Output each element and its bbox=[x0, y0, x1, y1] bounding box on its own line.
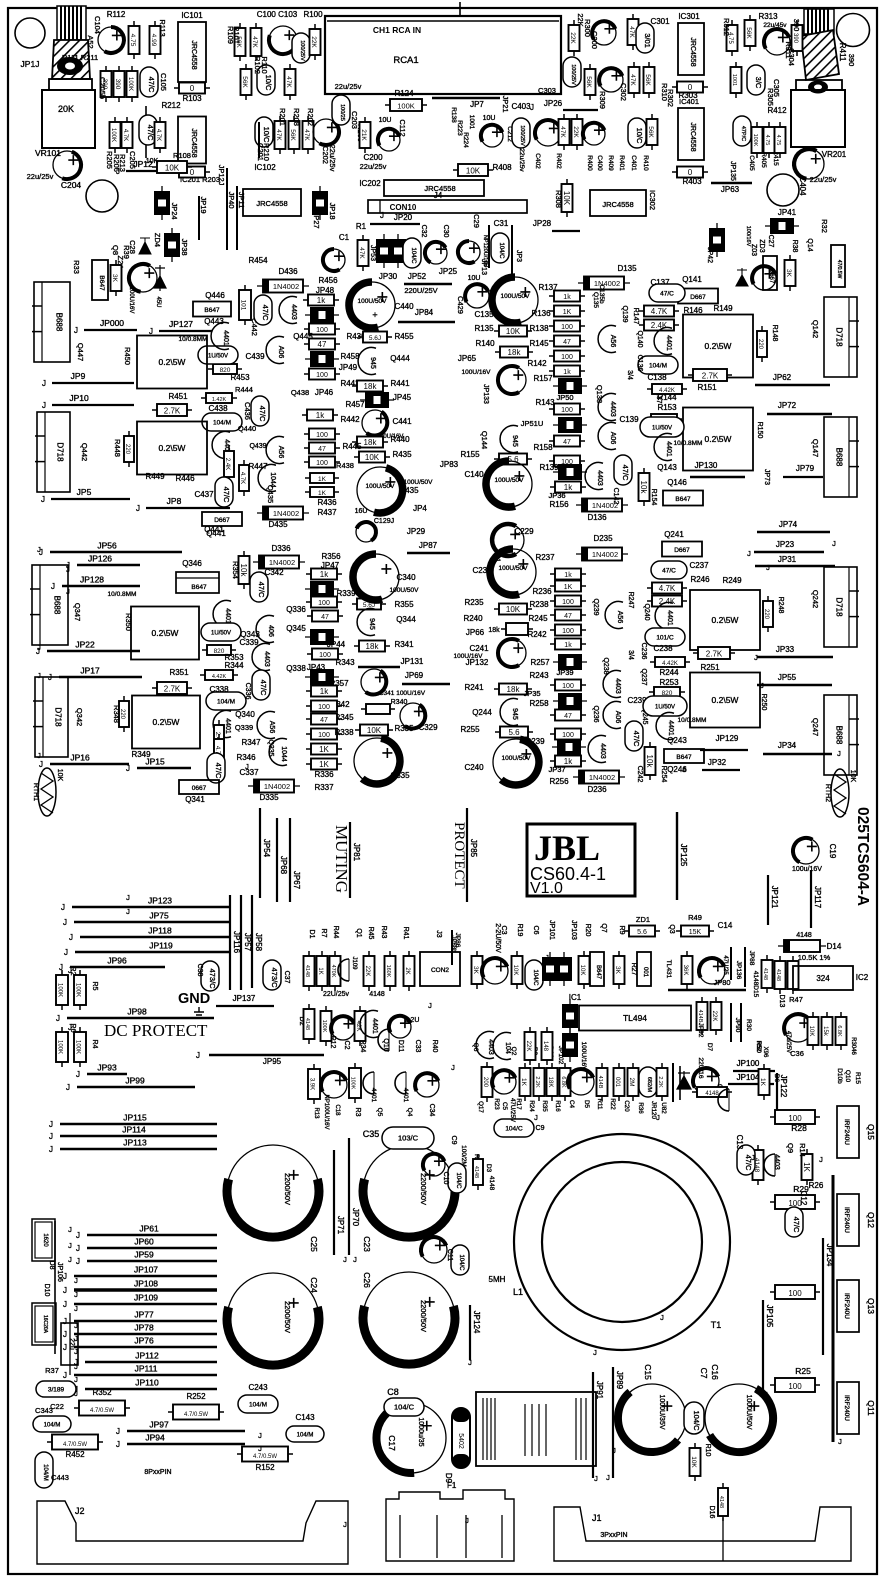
cap ecap r3 bbox=[599, 68, 623, 92]
svg-text:R36: R36 bbox=[637, 1102, 644, 1114]
diode D436 bbox=[257, 280, 309, 293]
svg-text:47K: 47K bbox=[303, 129, 310, 141]
svg-text:2.4K: 2.4K bbox=[224, 458, 230, 470]
svg-text:R451: R451 bbox=[168, 392, 188, 401]
svg-text:0.2\5W: 0.2\5W bbox=[705, 341, 732, 351]
svg-text:J: J bbox=[74, 1375, 78, 1384]
transistor B647 r3 bbox=[176, 572, 219, 593]
svg-text:R247: R247 bbox=[627, 592, 634, 609]
svg-text:JP116: JP116 bbox=[232, 931, 241, 954]
svg-text:Q442: Q442 bbox=[80, 443, 89, 461]
svg-text:4148D15: 4148D15 bbox=[752, 971, 759, 998]
wire JP125 bbox=[676, 812, 678, 900]
wire jumper JP77 bbox=[74, 1320, 217, 1322]
resistor 5.6 r4 bbox=[495, 727, 533, 738]
svg-text:1K: 1K bbox=[564, 584, 573, 591]
connector J1 bbox=[554, 1507, 851, 1561]
svg-text:Q10: Q10 bbox=[844, 1070, 851, 1083]
svg-text:D5: D5 bbox=[583, 1100, 590, 1108]
svg-text:C19: C19 bbox=[828, 844, 837, 859]
wire jumper JP61 bbox=[87, 1234, 217, 1236]
svg-text:4.99: 4.99 bbox=[150, 34, 157, 47]
svg-text:D10: D10 bbox=[43, 1284, 50, 1297]
svg-text:JP86: JP86 bbox=[454, 933, 461, 948]
wire jumper JP113 bbox=[60, 1148, 217, 1150]
svg-text:JP113: JP113 bbox=[123, 1138, 147, 1148]
cap 47/C b bbox=[215, 477, 233, 507]
cap 104/C b bbox=[525, 960, 543, 990]
svg-text:JP92: JP92 bbox=[697, 1023, 704, 1038]
svg-text:J: J bbox=[116, 1427, 120, 1436]
jumper JP53 blobs bbox=[376, 234, 392, 268]
transistor 945 r3 bbox=[357, 609, 375, 636]
resistor 220 r3 bbox=[119, 696, 129, 732]
ecap 10U bbox=[378, 129, 400, 151]
transistor Q442 D718 bbox=[37, 412, 70, 492]
svg-text:R27: R27 bbox=[630, 963, 637, 976]
svg-text:4.7K: 4.7K bbox=[155, 129, 161, 141]
svg-text:1N4002: 1N4002 bbox=[269, 558, 295, 567]
svg-text:R156: R156 bbox=[549, 500, 569, 509]
svg-text:2.7K: 2.7K bbox=[706, 649, 723, 658]
svg-text:10/0.8MM: 10/0.8MM bbox=[678, 717, 707, 724]
resistor 6.8K z bbox=[836, 1012, 847, 1050]
svg-text:Q239: Q239 bbox=[592, 598, 599, 615]
cap C37 bbox=[263, 960, 281, 990]
cap 47/C bbox=[140, 67, 158, 97]
svg-text:1620: 1620 bbox=[42, 1233, 48, 1247]
svg-text:47K: 47K bbox=[559, 126, 566, 138]
resistor 36K v bbox=[682, 951, 693, 989]
diode D9 5402 bbox=[452, 1408, 470, 1468]
svg-text:C240: C240 bbox=[464, 763, 484, 772]
svg-text:22K: 22K bbox=[711, 1011, 717, 1022]
IC IC401 bbox=[678, 108, 704, 160]
svg-text:R11: R11 bbox=[596, 1099, 603, 1110]
svg-text:100: 100 bbox=[561, 324, 573, 331]
resistor R10 10K bbox=[690, 1443, 701, 1481]
svg-text:R344: R344 bbox=[224, 661, 244, 670]
svg-text:682/M: 682/M bbox=[646, 1077, 652, 1093]
wire jumper JP119 bbox=[75, 951, 230, 953]
svg-text:100: 100 bbox=[562, 732, 574, 739]
svg-text:R440: R440 bbox=[390, 435, 410, 444]
svg-text:4.75: 4.75 bbox=[129, 34, 136, 47]
svg-text:JP112: JP112 bbox=[135, 1351, 159, 1361]
svg-text:JRC4558: JRC4558 bbox=[190, 40, 197, 69]
VR101 shaft collar (hatched) bbox=[52, 40, 90, 79]
diode 1N4002 ch1 bbox=[576, 499, 628, 512]
cap 100/25V NP r bbox=[563, 57, 581, 87]
svg-text:R41: R41 bbox=[402, 927, 409, 940]
svg-text:R44: R44 bbox=[332, 926, 339, 939]
capacitor C100 22u bbox=[269, 26, 297, 54]
svg-text:R158: R158 bbox=[533, 443, 553, 452]
svg-text:C229: C229 bbox=[514, 527, 534, 536]
svg-text:1K: 1K bbox=[520, 1078, 527, 1087]
resistor R113 4.7K bbox=[129, 21, 140, 59]
transistor 4401 r4 bbox=[655, 603, 673, 630]
svg-text:R108: R108 bbox=[173, 151, 191, 160]
svg-text:R441: R441 bbox=[390, 379, 410, 388]
svg-text:J: J bbox=[74, 326, 78, 335]
svg-text:Q12: Q12 bbox=[866, 1212, 876, 1228]
resistor 1k b bbox=[302, 410, 338, 421]
svg-text:JP41: JP41 bbox=[778, 208, 797, 217]
svg-text:IC201 R203: IC201 R203 bbox=[180, 175, 220, 184]
svg-text:R52: R52 bbox=[755, 1040, 761, 1052]
svg-text:D13: D13 bbox=[778, 995, 785, 1008]
svg-text:4148: 4148 bbox=[775, 969, 781, 981]
svg-text:47/C: 47/C bbox=[258, 406, 267, 422]
svg-text:JP109: JP109 bbox=[134, 1293, 158, 1303]
blob b2 bbox=[556, 952, 572, 986]
svg-text:10K: 10K bbox=[466, 166, 481, 175]
svg-text:1N4002: 1N4002 bbox=[589, 773, 615, 782]
capacitor C404 bbox=[794, 149, 824, 179]
wire jumper JP000 bbox=[84, 329, 137, 331]
jumper blob bbox=[305, 307, 339, 323]
svg-text:JP96: JP96 bbox=[107, 956, 127, 966]
resistor 4.7K bbox=[239, 460, 249, 496]
cap 47/C r3 bbox=[250, 572, 268, 602]
svg-text:100K: 100K bbox=[57, 983, 63, 997]
diode D14 4148 bbox=[778, 940, 826, 952]
svg-text:22u/25v: 22u/25v bbox=[810, 175, 837, 184]
resistor R152 4.7/0.5W bbox=[237, 1447, 293, 1462]
resistor 47 r3b bbox=[306, 714, 342, 725]
svg-text:820: 820 bbox=[214, 648, 225, 655]
blob r4c bbox=[552, 739, 586, 755]
resistor R408 10K bbox=[453, 164, 493, 176]
svg-text:104/C: 104/C bbox=[410, 247, 416, 264]
svg-text:R312: R312 bbox=[722, 18, 731, 36]
ecap r6 bbox=[583, 123, 605, 145]
jumper blob3 bbox=[360, 392, 394, 408]
svg-text:R410: R410 bbox=[642, 155, 649, 171]
svg-text:Q341: Q341 bbox=[185, 795, 205, 804]
svg-text:JP23: JP23 bbox=[776, 540, 795, 549]
svg-text:JP70: JP70 bbox=[351, 1208, 360, 1227]
svg-text:C342: C342 bbox=[264, 568, 284, 577]
diode D667 r4 bbox=[662, 542, 702, 557]
wire JP130 bbox=[690, 476, 745, 478]
svg-text:R3046: R3046 bbox=[850, 1037, 856, 1055]
svg-text:47/C: 47/C bbox=[632, 731, 641, 747]
svg-text:R248: R248 bbox=[777, 597, 784, 614]
svg-text:4403: 4403 bbox=[614, 678, 621, 694]
cap C30 bbox=[425, 242, 447, 264]
svg-text:C238: C238 bbox=[653, 644, 673, 653]
svg-text:D435: D435 bbox=[268, 520, 288, 529]
capacitor C13 bbox=[737, 1145, 755, 1175]
svg-text:22U/16: 22U/16 bbox=[697, 1058, 704, 1079]
svg-text:2.7K: 2.7K bbox=[702, 371, 719, 380]
svg-text:JP103: JP103 bbox=[570, 920, 577, 940]
svg-text:100: 100 bbox=[562, 683, 574, 690]
svg-text:R208: R208 bbox=[292, 108, 301, 126]
resistor R203 0 bbox=[174, 167, 210, 178]
svg-text:C8: C8 bbox=[387, 1387, 399, 1397]
svg-text:10K: 10K bbox=[849, 770, 856, 783]
svg-text:22u/25v: 22u/25v bbox=[328, 145, 337, 172]
svg-text:R253: R253 bbox=[659, 678, 679, 687]
cap 1U/50V r3 bbox=[201, 623, 241, 641]
resistor 100 r3 bbox=[306, 597, 342, 608]
svg-text:100: 100 bbox=[316, 372, 328, 379]
svg-text:R101: R101 bbox=[232, 26, 241, 44]
svg-text:R308: R308 bbox=[554, 190, 563, 208]
resistor 100b bbox=[304, 369, 340, 380]
wire JP68 bbox=[276, 818, 278, 902]
svg-text:JRC4558: JRC4558 bbox=[602, 200, 633, 209]
svg-text:47/C: 47/C bbox=[660, 291, 674, 298]
svg-text:025TCS604-A: 025TCS604-A bbox=[854, 807, 871, 906]
svg-text:Q11: Q11 bbox=[866, 1400, 876, 1416]
cap 1U/50V bbox=[198, 346, 238, 364]
svg-text:C105: C105 bbox=[159, 73, 168, 91]
mounting hole left upper bbox=[86, 180, 118, 212]
cap C32 104/C bbox=[403, 238, 421, 268]
connector CON2 bbox=[420, 952, 460, 986]
svg-text:Q444: Q444 bbox=[390, 354, 410, 363]
cap 1044 ps bbox=[378, 1029, 389, 1051]
svg-text:JP83: JP83 bbox=[440, 460, 459, 469]
transistor Q147 B688 bbox=[824, 417, 857, 497]
svg-text:4148: 4148 bbox=[304, 965, 310, 977]
heatsink rail wire bbox=[832, 1175, 835, 1442]
resistor 4.42K r4 bbox=[650, 657, 690, 667]
svg-text:JP45: JP45 bbox=[393, 393, 412, 402]
resistor 1k ch1 col bbox=[549, 291, 585, 302]
resistor R252 4.7/0.5W bbox=[168, 1405, 224, 1420]
svg-text:JP73: JP73 bbox=[763, 469, 770, 485]
svg-text:J: J bbox=[116, 1440, 120, 1449]
resistor 10k v r4 bbox=[645, 742, 656, 780]
svg-text:R255: R255 bbox=[460, 725, 480, 734]
capacitor C7 104/C bbox=[684, 1402, 704, 1434]
svg-text:C33: C33 bbox=[414, 1040, 421, 1053]
svg-text:945: 945 bbox=[511, 708, 518, 720]
resistor 18k r4b bbox=[494, 684, 532, 695]
svg-text:Q339: Q339 bbox=[235, 723, 253, 732]
ecap r5 bbox=[535, 120, 561, 146]
svg-text:1k: 1k bbox=[320, 687, 329, 696]
resistor 100 bbox=[304, 324, 340, 335]
svg-text:200: 200 bbox=[482, 1077, 488, 1088]
svg-text:10K: 10K bbox=[365, 453, 380, 462]
wire jumper JP97 bbox=[127, 1430, 245, 1432]
svg-text:2.7K: 2.7K bbox=[164, 406, 181, 415]
svg-text:JP129: JP129 bbox=[716, 734, 739, 743]
svg-text:R256: R256 bbox=[549, 777, 569, 786]
resistor 18k r3 bbox=[354, 641, 390, 652]
svg-text:R7: R7 bbox=[320, 929, 327, 938]
svg-text:3/01: 3/01 bbox=[643, 33, 652, 48]
resistor 47K r5 bbox=[559, 114, 570, 150]
resistor R26 1K bbox=[802, 1149, 813, 1185]
ecap r3 mid2 bbox=[400, 703, 426, 729]
resistor 10K r4 bbox=[494, 604, 532, 615]
svg-text:B647: B647 bbox=[675, 496, 691, 503]
svg-text:Q347: Q347 bbox=[73, 603, 82, 621]
driver block r4 lower bbox=[690, 673, 760, 728]
wire JP23 bbox=[754, 551, 824, 553]
svg-text:R30: R30 bbox=[745, 1019, 752, 1031]
resistor 47d bbox=[304, 443, 340, 454]
svg-text:JP5: JP5 bbox=[77, 487, 92, 497]
svg-text:J: J bbox=[74, 1290, 78, 1299]
wire JP122 bbox=[776, 1073, 778, 1112]
svg-text:IRF240U: IRF240U bbox=[843, 1293, 850, 1319]
wire jumper JP94 bbox=[127, 1443, 245, 1445]
diode D667 ch1 bbox=[678, 289, 718, 304]
svg-text:36K: 36K bbox=[682, 965, 688, 976]
cap C435 100U/50V bbox=[357, 467, 403, 513]
svg-text:0: 0 bbox=[190, 84, 195, 93]
cap C129 bbox=[356, 522, 376, 542]
transistor M06 bbox=[266, 337, 284, 364]
wire JP129 bbox=[700, 749, 748, 751]
svg-text:IC101: IC101 bbox=[181, 11, 203, 20]
svg-text:R450: R450 bbox=[123, 347, 132, 365]
svg-text:1k: 1k bbox=[563, 294, 571, 301]
svg-text:R26: R26 bbox=[809, 1181, 824, 1190]
svg-text:ZD3: ZD3 bbox=[758, 239, 765, 252]
resistor R28 100 bbox=[770, 1110, 820, 1124]
svg-text:22u/25v: 22u/25v bbox=[335, 82, 362, 91]
resistor 5.6 ch1 bbox=[494, 454, 532, 465]
svg-text:100U/50V: 100U/50V bbox=[366, 483, 396, 490]
svg-text:J: J bbox=[764, 1390, 768, 1399]
svg-text:Q142: Q142 bbox=[811, 320, 820, 338]
svg-text:JP79: JP79 bbox=[796, 464, 815, 473]
svg-text:R23: R23 bbox=[493, 1098, 500, 1110]
svg-text:R110: R110 bbox=[260, 56, 269, 73]
svg-text:3/4: 3/4 bbox=[627, 650, 634, 660]
svg-text:R245: R245 bbox=[528, 614, 548, 623]
svg-text:100K: 100K bbox=[57, 1040, 63, 1054]
wire JP57 bbox=[240, 895, 242, 990]
svg-text:JP81: JP81 bbox=[352, 843, 361, 862]
resistor 22K r5 bbox=[572, 114, 583, 150]
svg-text:1K: 1K bbox=[317, 967, 323, 974]
svg-text:J: J bbox=[428, 1001, 432, 1010]
svg-text:R313: R313 bbox=[758, 12, 778, 21]
svg-text:JP40: JP40 bbox=[227, 191, 236, 208]
resistor 4148 v2 bbox=[775, 956, 786, 994]
svg-text:100U/16V: 100U/16V bbox=[462, 369, 492, 376]
thermistor RTH1 bbox=[38, 768, 56, 816]
svg-text:J: J bbox=[682, 765, 686, 774]
svg-text:47: 47 bbox=[321, 614, 329, 621]
svg-text:104/M: 104/M bbox=[213, 420, 231, 427]
svg-text:JP108: JP108 bbox=[134, 1279, 158, 1289]
svg-text:R302: R302 bbox=[666, 89, 675, 107]
mounting hole right upper bbox=[767, 174, 799, 206]
svg-text:R400: R400 bbox=[586, 155, 593, 171]
svg-text:J: J bbox=[74, 1304, 78, 1313]
svg-text:0.2\5W: 0.2\5W bbox=[705, 434, 732, 444]
svg-text:47K: 47K bbox=[628, 26, 635, 38]
svg-text:JP59: JP59 bbox=[134, 1250, 154, 1260]
svg-text:104/C: 104/C bbox=[692, 1410, 701, 1431]
svg-text:JP75: JP75 bbox=[149, 911, 169, 921]
svg-text:Q9: Q9 bbox=[786, 1143, 795, 1153]
cap 10/C bbox=[257, 65, 275, 95]
resistor 100 r4b bbox=[550, 680, 586, 691]
svg-text:D667: D667 bbox=[690, 294, 706, 301]
svg-text:Q139: Q139 bbox=[621, 305, 628, 322]
svg-text:C329: C329 bbox=[418, 723, 438, 732]
transistor B647 bbox=[193, 302, 231, 317]
svg-text:220: 220 bbox=[124, 444, 130, 455]
wire JP121 bbox=[767, 875, 769, 925]
svg-text:R111 R211: R111 R211 bbox=[62, 53, 98, 62]
svg-text:J: J bbox=[76, 1231, 80, 1240]
svg-text:10/C: 10/C bbox=[635, 128, 644, 144]
connector CON10 bbox=[368, 200, 527, 213]
svg-text:R3: R3 bbox=[354, 1108, 361, 1117]
svg-text:100: 100 bbox=[316, 327, 328, 334]
cap 1U/50V r4 bbox=[643, 696, 687, 716]
ecap C36 bbox=[784, 1014, 812, 1042]
svg-text:J: J bbox=[61, 903, 65, 912]
svg-text:Q240: Q240 bbox=[643, 603, 650, 620]
cap C335 100U/50V bbox=[354, 738, 400, 784]
svg-text:Q5: Q5 bbox=[376, 1108, 383, 1117]
svg-text:1001: 1001 bbox=[731, 74, 737, 86]
resistor 4.7K r4 bbox=[647, 583, 687, 594]
resistor 470K ps bbox=[330, 951, 341, 991]
IC B647 v bbox=[590, 952, 604, 986]
resistor 47K R1 bbox=[358, 235, 369, 271]
svg-text:R435: R435 bbox=[392, 450, 412, 459]
wire jumper JP107 bbox=[74, 1275, 217, 1277]
resistor D15 third bbox=[788, 956, 799, 994]
resistor 10K ch1 bbox=[494, 326, 532, 337]
svg-text:15K: 15K bbox=[689, 929, 702, 936]
svg-text:J: J bbox=[465, 1516, 469, 1525]
cap 22u ecap bbox=[592, 21, 616, 45]
svg-text:C340: C340 bbox=[396, 573, 416, 582]
diode zener bbox=[736, 268, 748, 286]
svg-text:R240: R240 bbox=[463, 614, 483, 623]
svg-text:C405: C405 bbox=[748, 155, 755, 171]
transistor 4401 b bbox=[211, 323, 229, 350]
wire jumper JP78 bbox=[74, 1333, 217, 1335]
svg-text:R154: R154 bbox=[650, 489, 657, 506]
wire JP117 bbox=[810, 870, 812, 928]
resistor 1K col bbox=[305, 473, 339, 483]
svg-text:10K: 10K bbox=[506, 605, 521, 614]
capacitor C8 104/C bbox=[384, 1398, 424, 1416]
svg-text:10/0.8MM: 10/0.8MM bbox=[674, 440, 703, 447]
svg-text:473/C: 473/C bbox=[208, 968, 217, 989]
svg-text:47K: 47K bbox=[285, 76, 292, 88]
resistor R303 0 bbox=[672, 82, 708, 93]
svg-text:5.6: 5.6 bbox=[637, 929, 647, 936]
wire JP20 bbox=[370, 223, 420, 225]
svg-text:C343: C343 bbox=[35, 1406, 53, 1415]
svg-text:R152: R152 bbox=[255, 1463, 275, 1472]
svg-text:47/C: 47/C bbox=[621, 465, 630, 481]
resistor 100K ps4 bbox=[74, 1027, 86, 1067]
resistor 2.4K ch1 bbox=[639, 320, 679, 331]
wire jumper JP123 bbox=[72, 906, 230, 908]
resistor 1K r3c bbox=[306, 744, 342, 755]
svg-text:103/C: 103/C bbox=[398, 1134, 419, 1143]
